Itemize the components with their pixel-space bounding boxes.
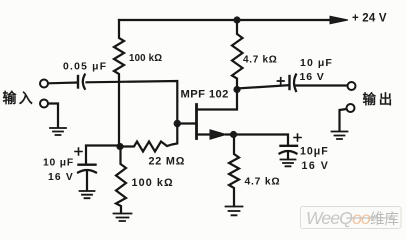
wire top supply rail bbox=[119, 19, 335, 21]
terminal output upper bbox=[348, 82, 356, 90]
svg-text:16 V: 16 V bbox=[300, 71, 325, 83]
ground C4 bbox=[80, 191, 95, 198]
svg-text:10μF: 10μF bbox=[300, 146, 329, 158]
svg-text:10 μF: 10 μF bbox=[43, 158, 74, 169]
node supply junction dot bbox=[233, 16, 240, 23]
terminal input lower bbox=[40, 100, 48, 108]
svg-text:输入: 输入 bbox=[3, 90, 35, 106]
svg-text:100 kΩ: 100 kΩ bbox=[129, 53, 162, 64]
capacitor C1 0.05 µF (input coupling) bbox=[78, 75, 85, 89]
transistor Q1 MPF 102 (N-JFET) bbox=[177, 91, 237, 139]
capacitor C4 10 µF 16 V (divider decoupling) bbox=[75, 148, 96, 190]
svg-text:16 V: 16 V bbox=[48, 172, 74, 183]
svg-text:4.7 kΩ: 4.7 kΩ bbox=[243, 55, 277, 66]
terminal output lower bbox=[347, 104, 355, 112]
svg-text:10 μF: 10 μF bbox=[300, 57, 333, 69]
svg-text:4.7 kΩ: 4.7 kΩ bbox=[245, 177, 281, 188]
terminal input upper bbox=[40, 80, 48, 88]
resistor R2 4.7 kΩ (drain) bbox=[232, 20, 243, 87]
ground input bbox=[50, 128, 66, 135]
svg-text:0.05 μF: 0.05 μF bbox=[63, 62, 107, 73]
ground lower divider resistor bbox=[114, 214, 132, 222]
wire C1 to gate bbox=[87, 81, 178, 122]
node A divider midpoint dot bbox=[116, 143, 123, 150]
wire node A to C4 bbox=[86, 146, 120, 164]
node gate junction dot bbox=[174, 120, 181, 127]
watermark WeeQoo box bbox=[301, 207, 402, 229]
node drain junction dot bbox=[233, 86, 240, 93]
resistor R4 4.7 kΩ (source) bbox=[229, 138, 239, 206]
svg-text:输出: 输出 bbox=[363, 91, 396, 107]
svg-text:16 V: 16 V bbox=[302, 160, 330, 172]
arrow +24V supply bbox=[330, 16, 348, 24]
resistor R1 100 kΩ (upper divider) bbox=[114, 20, 124, 143]
resistor R5 22 MΩ (gate, horizontal) bbox=[120, 125, 177, 152]
resistor R3 100 kΩ (lower divider) bbox=[116, 147, 126, 214]
svg-text:22 MΩ: 22 MΩ bbox=[149, 156, 186, 168]
capacitor C2 10 µF 16 V (output coupling) bbox=[278, 75, 297, 92]
node source junction dot bbox=[230, 131, 237, 138]
wire drain to output capacitor bbox=[237, 85, 289, 88]
wire input lower terminal to ground bbox=[49, 104, 59, 127]
svg-text:100 kΩ: 100 kΩ bbox=[132, 177, 174, 189]
wire input terminal to C1 bbox=[49, 81, 78, 84]
wire output capacitor to terminal bbox=[297, 84, 348, 86]
wire output lower terminal to ground bbox=[340, 109, 347, 130]
ground bypass capacitor bbox=[281, 160, 296, 167]
svg-text:+ 24 V: + 24 V bbox=[352, 13, 387, 25]
wire source to bypass capacitor bbox=[226, 135, 288, 145]
ground output bbox=[332, 132, 348, 140]
capacitor C3 10 µF 16 V (source bypass) bbox=[280, 134, 302, 159]
ground source resistor bbox=[226, 207, 243, 216]
svg-text:MPF 102: MPF 102 bbox=[181, 89, 229, 101]
